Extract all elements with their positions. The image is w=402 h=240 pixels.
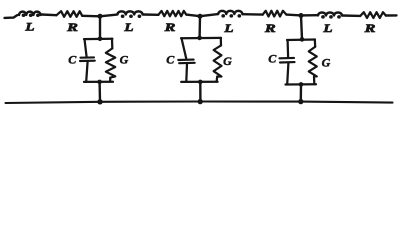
branch3 top junction dot	[300, 37, 305, 42]
svg-text:R: R	[363, 22, 375, 35]
wire node1-L2	[100, 15, 117, 17]
wire L3-R3	[243, 13, 263, 16]
svg-text:L: L	[322, 21, 332, 34]
inductor L1	[19, 12, 41, 17]
branch2 bottom junction dot	[198, 80, 203, 85]
wire branch3 to ground rail	[300, 84, 303, 101]
wire C1 bottom lead	[86, 62, 87, 82]
branch1 top bar wire	[84, 38, 112, 41]
svg-text:L: L	[123, 20, 133, 33]
branch3 top bar wire	[287, 38, 315, 41]
label L2	[123, 20, 133, 33]
wire R3-node3	[286, 13, 301, 16]
wire G2 bottom lead	[215, 77, 218, 82]
node 1 junction dot	[98, 14, 103, 19]
wire node3 drop	[301, 16, 302, 40]
wire G1 bottom lead	[109, 78, 111, 82]
svg-text:C: C	[268, 52, 277, 66]
svg-text:G: G	[223, 54, 232, 68]
node 3 junction dot	[299, 13, 304, 18]
resistor R2	[158, 11, 186, 16]
conductance G2	[214, 45, 222, 76]
svg-text:L: L	[24, 20, 34, 33]
inductor L4	[318, 12, 342, 18]
resistor R3	[263, 11, 287, 17]
branch3 rail junction dot	[298, 99, 303, 104]
wire R1-node1	[82, 15, 100, 18]
branch2 top bar wire	[181, 37, 221, 40]
resistor R1	[57, 11, 83, 17]
branch1 rail junction dot	[97, 99, 102, 104]
wire L4-R4	[342, 14, 360, 17]
wire R2-node2	[186, 15, 200, 17]
inductor L2	[117, 11, 142, 18]
node 2 junction dot	[198, 14, 203, 19]
svg-text:R: R	[264, 22, 276, 35]
wire node1 drop	[99, 16, 101, 39]
wire node3-L4	[301, 14, 317, 17]
wire C2 top lead	[182, 38, 187, 58]
branch2 rail junction dot	[198, 99, 203, 104]
branch3 bottom junction dot	[299, 82, 304, 87]
svg-text:L: L	[223, 21, 233, 34]
capacitor C1	[80, 57, 95, 61]
svg-text:C: C	[166, 53, 175, 67]
wire G3 bottom lead	[313, 76, 316, 84]
wire branch1 to ground rail	[98, 82, 101, 102]
wire input lead	[5, 15, 18, 18]
inductor L3	[218, 11, 242, 18]
label C1	[68, 52, 77, 66]
label C3	[268, 52, 277, 66]
svg-text:G: G	[120, 52, 129, 66]
branch2 bottom bar wire	[181, 81, 217, 83]
branch1 bottom junction dot	[97, 80, 102, 85]
label G3	[322, 55, 331, 69]
wire L1-R1	[41, 13, 56, 16]
wire C1 top lead	[85, 39, 87, 57]
wire L2-R2	[143, 13, 159, 16]
svg-text:R: R	[163, 21, 175, 34]
svg-text:C: C	[68, 52, 77, 66]
wire G1 top lead	[111, 39, 114, 49]
conductance G3	[309, 47, 317, 77]
label G1	[120, 52, 129, 66]
branch2 top junction dot	[197, 36, 202, 41]
label G2	[223, 54, 232, 68]
label R4	[363, 22, 375, 35]
ground rail wire	[6, 102, 393, 104]
conductance G1	[106, 48, 116, 77]
wire node2 drop	[198, 16, 201, 38]
wire output lead	[386, 14, 397, 17]
capacitor C2	[178, 60, 194, 64]
wire C2 bottom lead	[185, 64, 188, 82]
branch3 bottom bar wire	[286, 83, 317, 86]
label L1	[24, 20, 34, 33]
branch1 bottom bar wire	[84, 81, 113, 83]
label R1	[66, 21, 78, 34]
branch1 top junction dot	[98, 37, 103, 42]
wire C3 bottom lead	[287, 63, 288, 84]
label C2	[166, 53, 175, 67]
svg-text:R: R	[66, 21, 78, 34]
svg-text:G: G	[322, 55, 331, 69]
wire C3 top lead	[286, 40, 289, 57]
wire G2 top lead	[220, 38, 222, 46]
label R2	[163, 21, 175, 34]
capacitor C3	[280, 58, 295, 63]
label L4	[322, 21, 332, 34]
wire G3 top lead	[314, 40, 317, 47]
wire branch2 to ground rail	[199, 82, 201, 102]
wire node2-L3	[200, 14, 218, 16]
label L3	[223, 21, 233, 34]
resistor R4	[360, 12, 386, 18]
label R3	[264, 22, 276, 35]
